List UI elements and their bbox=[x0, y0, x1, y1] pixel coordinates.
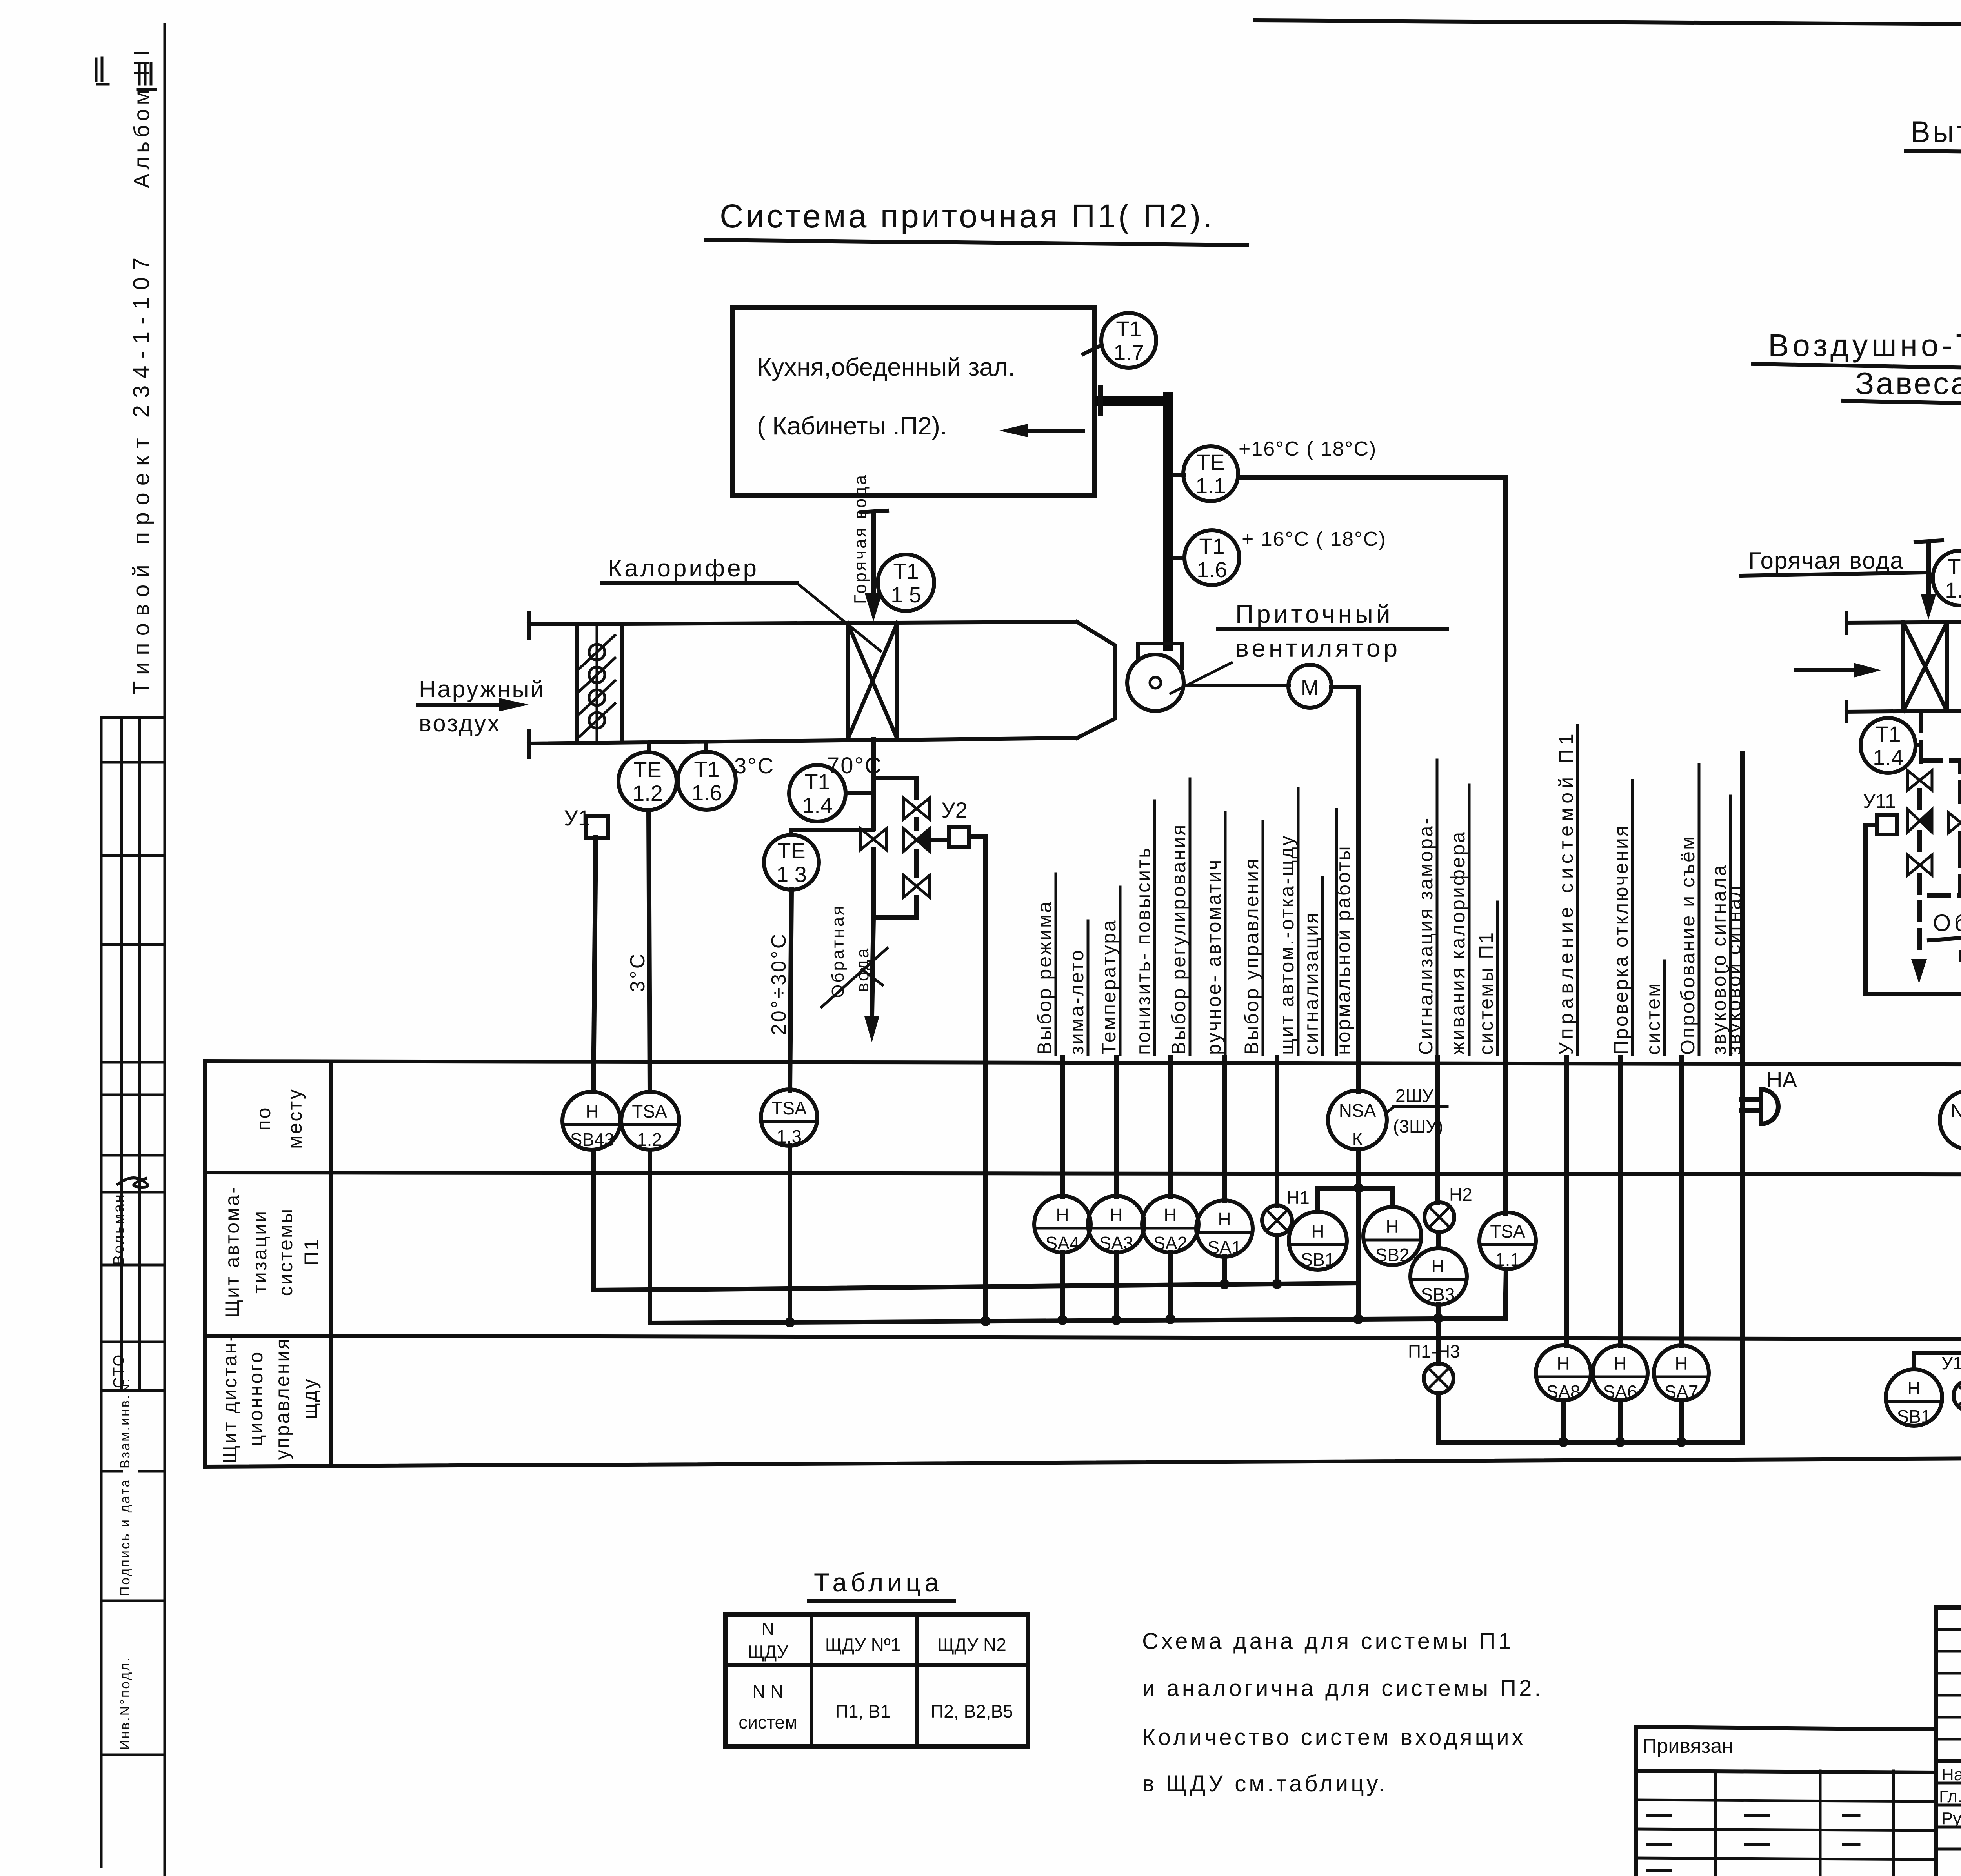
svg-text:Н: Н bbox=[1675, 1353, 1688, 1374]
svg-text:1.4: 1.4 bbox=[802, 793, 833, 818]
svg-text:Рук. гр.: Рук. гр. bbox=[1941, 1809, 1961, 1828]
svg-text:щду: щду bbox=[299, 1377, 321, 1419]
wire сигнализация замораживания down bbox=[1435, 1058, 1440, 1202]
sensor TE 1.3 bbox=[764, 835, 819, 890]
small table frame bbox=[725, 1614, 1028, 1747]
sensor T1 1.7 bbox=[1101, 313, 1156, 368]
switch H/SA6 bbox=[1593, 1345, 1648, 1400]
stamp marks top-left bbox=[96, 58, 156, 89]
wire SA2 column bbox=[1168, 1058, 1173, 1197]
left margin strip cells bbox=[100, 718, 103, 1867]
wire TSA1.2 down to bus B bbox=[648, 1151, 652, 1322]
svg-text:Кухня,обеденный зал.: Кухня,обеденный зал. bbox=[757, 353, 1015, 381]
button H/SB43 bbox=[562, 1092, 620, 1150]
fan to motor link bbox=[1184, 684, 1289, 687]
svg-text:Н: Н bbox=[1557, 1353, 1570, 1374]
branch У1 row3 bbox=[1914, 1353, 1961, 1369]
svg-text:1.6: 1.6 bbox=[1197, 557, 1227, 582]
bracket over SB1 SB2 bbox=[1318, 1188, 1392, 1212]
svg-text:У1-: У1- bbox=[1941, 1353, 1961, 1373]
sensor T1 1.5 curtain bbox=[1933, 551, 1961, 605]
svg-text:понизить- повысить: понизить- повысить bbox=[1132, 846, 1154, 1055]
svg-text:Температура: Температура bbox=[1098, 919, 1120, 1055]
heater box with cross bbox=[846, 623, 850, 740]
svg-text:тизации: тизации bbox=[249, 1210, 271, 1294]
svg-text:Н: Н bbox=[1386, 1216, 1399, 1237]
svg-text:Т1: Т1 bbox=[1116, 316, 1141, 341]
bypass branch top bbox=[873, 778, 917, 798]
svg-text:в ЩДУ см.таблицу.: в ЩДУ см.таблицу. bbox=[1142, 1771, 1388, 1796]
hot water pipe into curtain heater bbox=[1926, 544, 1931, 602]
svg-text:У2: У2 bbox=[941, 798, 968, 822]
arrow into room bbox=[1014, 429, 1083, 433]
svg-text:и аналогична для системы П2.: и аналогична для системы П2. bbox=[1142, 1676, 1544, 1701]
panel table bottom line bbox=[205, 1456, 1961, 1467]
svg-text:SB1: SB1 bbox=[1897, 1406, 1931, 1427]
svg-text:2ШУ: 2ШУ bbox=[1395, 1085, 1434, 1106]
svg-text:М: М bbox=[1301, 675, 1319, 700]
wire SB43 down to bus A bbox=[591, 1151, 596, 1290]
selector NSA K curtain bbox=[1940, 1091, 1961, 1149]
У11 control wire to junction bbox=[1866, 689, 1961, 994]
svg-text:Н: Н bbox=[1311, 1221, 1324, 1242]
switch H/SA2 bbox=[1142, 1196, 1199, 1252]
louver section divider bbox=[620, 624, 624, 742]
SEC:FANS bbox=[1906, 115, 1961, 1096]
svg-text:Опробование и съём: Опробование и съём bbox=[1677, 835, 1699, 1055]
svg-text:Н: Н bbox=[1431, 1256, 1444, 1276]
frame border vertical bbox=[164, 24, 166, 1876]
svg-text:Щит дистан-: Щит дистан- bbox=[219, 1333, 241, 1463]
svg-text:НА: НА bbox=[1766, 1067, 1797, 1092]
curtain valve bottom bbox=[1908, 855, 1932, 875]
svg-text:Обратная: Обратная bbox=[828, 904, 848, 998]
wire M down to table bbox=[1332, 687, 1359, 1091]
title block outline bbox=[1936, 1605, 1961, 1610]
svg-text:Схема дана для системы П1: Схема дана для системы П1 bbox=[1142, 1629, 1514, 1654]
svg-text:1 3: 1 3 bbox=[776, 862, 807, 887]
duct top line bbox=[529, 622, 1077, 624]
svg-text:Обратная: Обратная bbox=[1933, 910, 1961, 936]
SEC:ROW2 bbox=[593, 1146, 1536, 1363]
junction У2 wire on bus B bbox=[980, 1316, 991, 1326]
top right border line bbox=[1255, 20, 1961, 28]
button H/SB3 bbox=[1410, 1248, 1467, 1305]
svg-text:1.5: 1.5 bbox=[1945, 578, 1961, 602]
wire НА down to bus C bbox=[1740, 1086, 1745, 1443]
svg-text:Н1: Н1 bbox=[1286, 1187, 1310, 1208]
sensor T1 1.4 curtain bbox=[1861, 718, 1916, 773]
duct right taper to fan bbox=[1077, 622, 1115, 738]
svg-text:SB2: SB2 bbox=[1375, 1245, 1410, 1265]
svg-text:Выбор управления: Выбор управления bbox=[1241, 857, 1262, 1055]
switch H/SA4 bbox=[1034, 1196, 1091, 1252]
three-way valve with actuator У2 bbox=[904, 829, 930, 851]
svg-text:Горячая вода: Горячая вода bbox=[1748, 547, 1904, 574]
Привязан block bbox=[1636, 1727, 1936, 1729]
svg-text:месту: месту bbox=[284, 1088, 306, 1149]
button H/SB2 bbox=[1363, 1207, 1421, 1265]
svg-text:П1-Н3: П1-Н3 bbox=[1408, 1341, 1460, 1362]
svg-text:1.6: 1.6 bbox=[691, 780, 722, 805]
wire horn НА column bbox=[1740, 753, 1745, 1086]
panel table top line bbox=[205, 1061, 1961, 1065]
svg-text:Н: Н bbox=[1218, 1209, 1231, 1229]
svg-text:SB3: SB3 bbox=[1421, 1284, 1455, 1305]
svg-text:Наружный: Наружный bbox=[419, 676, 545, 702]
svg-text:Т1: Т1 bbox=[1199, 534, 1224, 558]
switch H/SA3 bbox=[1088, 1196, 1144, 1252]
svg-text:Вольман: Вольман bbox=[111, 1193, 127, 1265]
svg-text:ТЕ: ТЕ bbox=[633, 757, 662, 782]
svg-text:3°С: 3°С bbox=[626, 952, 649, 992]
svg-text:Привязан: Привязан bbox=[1642, 1735, 1733, 1758]
svg-text:TSA: TSA bbox=[632, 1101, 667, 1122]
wire П1-Н3 to bus C bbox=[1439, 1393, 1742, 1443]
svg-text:воздух: воздух bbox=[419, 710, 501, 736]
svg-text:живания калорифера: живания калорифера bbox=[1447, 831, 1469, 1055]
svg-text:1 5: 1 5 bbox=[891, 582, 921, 607]
lead to T1 1.7 bbox=[1083, 345, 1102, 354]
svg-text:Выбор регулирования: Выбор регулирования bbox=[1168, 823, 1190, 1055]
svg-text:N: N bbox=[761, 1619, 774, 1639]
louver damper blades bbox=[580, 635, 615, 736]
svg-text:ручное- автоматич: ручное- автоматич bbox=[1203, 858, 1225, 1055]
svg-text:(3ШУ): (3ШУ) bbox=[1393, 1116, 1443, 1136]
svg-text:N N: N N bbox=[752, 1681, 783, 1702]
valve on main line bbox=[860, 829, 886, 850]
svg-text:Таблица: Таблица bbox=[814, 1568, 943, 1597]
wire SA4 column bbox=[1060, 1058, 1065, 1197]
svg-text:ционного: ционного bbox=[245, 1351, 267, 1446]
curtain heater box bbox=[1846, 622, 1961, 623]
SEC:CURTAIN bbox=[1741, 328, 1961, 1091]
SEC:AHU bbox=[418, 473, 1359, 1322]
valve on bypass bottom bbox=[904, 875, 930, 897]
sensor T1 1.5 bbox=[878, 554, 934, 611]
svg-text:1.2: 1.2 bbox=[632, 781, 663, 805]
motor M of supply fan bbox=[1288, 665, 1332, 708]
wire У2 down to bus bbox=[969, 836, 986, 1322]
svg-text:Н: Н bbox=[1110, 1205, 1122, 1225]
duct end ticks bbox=[527, 613, 531, 638]
svg-text:( Кабинеты .П2).: ( Кабинеты .П2). bbox=[757, 412, 947, 440]
alarm TSA 1.2 bbox=[621, 1092, 679, 1150]
hot water pipe into heater bbox=[871, 514, 876, 612]
svg-text:П2, В2,В5: П2, В2,В5 bbox=[931, 1701, 1013, 1721]
SEC:ROW3 bbox=[1408, 1341, 1961, 1447]
curtain valve top bbox=[1908, 771, 1932, 790]
duct bottom line bbox=[529, 738, 1077, 743]
wire TE1.1 to TSA1.1 bbox=[1238, 478, 1505, 1213]
svg-text:ЩДУ: ЩДУ bbox=[748, 1641, 789, 1662]
svg-text:Калорифер: Калорифер bbox=[608, 555, 759, 582]
wire H1 lamp column bbox=[1275, 1058, 1279, 1205]
svg-text:вентилятор: вентилятор bbox=[1235, 634, 1401, 662]
wire SA7 column bbox=[1679, 1058, 1684, 1345]
sensor T1 1.4 bbox=[789, 765, 846, 822]
svg-text:Количество систем входящих: Количество систем входящих bbox=[1142, 1725, 1526, 1750]
panel table divider row2/row3 bbox=[205, 1336, 1961, 1340]
heater water drop pipe bbox=[871, 740, 876, 829]
svg-text:П1: П1 bbox=[300, 1238, 322, 1266]
svg-text:Горячая вода: Горячая вода bbox=[851, 473, 870, 604]
svg-text:Вытяжной вентилятор В1: Вытяжной вентилятор В1 bbox=[1910, 115, 1961, 149]
svg-text:Гл.инж.отд: Гл.инж.отд bbox=[1939, 1787, 1961, 1806]
svg-text:систем: систем bbox=[739, 1712, 797, 1732]
svg-text:1.2: 1.2 bbox=[637, 1129, 662, 1150]
svg-text:вода: вода bbox=[1957, 941, 1961, 967]
bus B bbox=[650, 1318, 1505, 1323]
svg-text:Н: Н bbox=[586, 1101, 598, 1122]
svg-text:Нач.отд: Нач.отд bbox=[1941, 1765, 1961, 1784]
wire TE1.3 down to TSA1.3 bbox=[790, 890, 791, 1090]
wire SA6 column bbox=[1618, 1058, 1623, 1345]
bypass rejoin bbox=[873, 897, 917, 917]
svg-text:У11: У11 bbox=[1863, 790, 1896, 812]
inlet arrow curtain bbox=[1796, 668, 1859, 672]
svg-text:20°÷30°С: 20°÷30°С bbox=[768, 932, 790, 1035]
svg-text:Н: Н bbox=[1907, 1378, 1920, 1398]
curtain three-way valve bbox=[1908, 809, 1932, 832]
supply fan bbox=[1138, 644, 1182, 668]
svg-text:ЩДУ N2: ЩДУ N2 bbox=[937, 1634, 1006, 1655]
wire TE1.2 down to TSA1.2 bbox=[649, 810, 650, 1092]
SEC:LABELS bbox=[1033, 725, 1745, 1345]
svg-text:системы П1: системы П1 bbox=[1475, 931, 1497, 1055]
svg-text:Выбор режима: Выбор режима bbox=[1033, 900, 1055, 1055]
sensor TE 1.2 bbox=[647, 743, 651, 752]
switch H/SA8 bbox=[1536, 1345, 1591, 1400]
svg-text:TSA: TSA bbox=[1490, 1221, 1525, 1242]
svg-text:зима-лето: зима-лето bbox=[1066, 949, 1088, 1055]
curtain water drop pipe dashed bbox=[1919, 711, 1923, 769]
svg-text:сигнализация: сигнализация bbox=[1300, 911, 1322, 1055]
svg-text:Типовой проект 234-1-107: Типовой проект 234-1-107 bbox=[129, 251, 154, 695]
sensor T1 1.6 duct bbox=[704, 742, 708, 752]
sensor TE 1.1 bbox=[1173, 473, 1184, 477]
button H/SB1 bbox=[1289, 1212, 1347, 1270]
svg-text:3°С: 3°С bbox=[734, 753, 775, 778]
title block small rows bbox=[1936, 1628, 1961, 1631]
svg-text:+16°С ( 18°С): +16°С ( 18°С) bbox=[1239, 438, 1377, 460]
svg-text:П1, В1: П1, В1 bbox=[835, 1701, 890, 1721]
svg-text:TSA: TSA bbox=[771, 1098, 807, 1118]
valve on bypass top bbox=[904, 798, 930, 819]
wire SA8 column bbox=[1564, 1058, 1569, 1345]
return arrow bbox=[1911, 959, 1927, 983]
svg-text:Сигнализация замора-: Сигнализация замора- bbox=[1415, 816, 1437, 1055]
panel table label column divider bbox=[329, 1062, 333, 1466]
alarm TSA 1.1 bbox=[1479, 1212, 1536, 1269]
wire SA3 column bbox=[1114, 1058, 1119, 1197]
svg-text:Система приточная П1( П2).: Система приточная П1( П2). bbox=[720, 198, 1215, 234]
selector NSA K 2ШУ bbox=[1328, 1091, 1387, 1149]
svg-text:Завеса У1: Завеса У1 bbox=[1855, 366, 1961, 401]
svg-text:Инв.N°подл.: Инв.N°подл. bbox=[118, 1656, 133, 1750]
svg-text:1.7: 1.7 bbox=[1113, 340, 1144, 365]
svg-text:1.1: 1.1 bbox=[1195, 473, 1226, 498]
svg-text:системы: системы bbox=[275, 1207, 297, 1296]
bus A slope segment bbox=[593, 1283, 1359, 1290]
svg-text:NSA: NSA bbox=[1951, 1100, 1961, 1121]
svg-text:ЩДУ Nº1: ЩДУ Nº1 bbox=[825, 1634, 900, 1655]
svg-text:+ 16°С ( 18°С): + 16°С ( 18°С) bbox=[1242, 528, 1386, 551]
svg-text:NSA: NSA bbox=[1339, 1100, 1376, 1121]
wire TSA1.3 to bus B junction bbox=[788, 1146, 792, 1323]
svg-text:Т1: Т1 bbox=[1947, 554, 1961, 579]
panel table divider row1/row2 bbox=[205, 1172, 1961, 1175]
svg-text:1.4: 1.4 bbox=[1873, 745, 1903, 770]
SEC:TABLE bbox=[205, 1061, 1961, 1467]
svg-text:Н: Н bbox=[1614, 1353, 1626, 1374]
svg-text:Н: Н bbox=[1164, 1205, 1177, 1225]
svg-text:щит автом.-отка-щду: щит автом.-отка-щду bbox=[1276, 834, 1298, 1055]
svg-text:SB1: SB1 bbox=[1301, 1249, 1335, 1270]
thick supply pipe from room to fan bbox=[1100, 396, 1168, 406]
svg-text:Подпись и дата: Подпись и дата bbox=[118, 1478, 133, 1596]
switch H/SA1 bbox=[1196, 1200, 1253, 1257]
AHU body left edge bbox=[575, 624, 579, 743]
switch H/SA7 bbox=[1654, 1345, 1709, 1400]
wire SA1 column bbox=[1222, 1058, 1227, 1201]
svg-text:Воздушно-Тепловая: Воздушно-Тепловая bbox=[1768, 328, 1961, 363]
svg-text:К: К bbox=[1352, 1129, 1363, 1149]
panel table left border bbox=[203, 1061, 207, 1467]
SEC:BOTTOM bbox=[725, 1564, 1961, 1876]
sensor T1 1.6 upper bbox=[1173, 556, 1184, 560]
svg-text:Т1: Т1 bbox=[1875, 722, 1901, 746]
svg-text:Проверка отключения: Проверка отключения bbox=[1610, 824, 1632, 1055]
svg-text:Альбом III: Альбом III bbox=[129, 46, 154, 188]
wire NSA2ШУ to bus A bbox=[1358, 1149, 1359, 1320]
svg-text:ТЕ: ТЕ bbox=[1197, 450, 1225, 474]
svg-text:SB43: SB43 bbox=[570, 1129, 615, 1150]
svg-text:Т1: Т1 bbox=[804, 769, 830, 794]
svg-text:по: по bbox=[253, 1106, 275, 1131]
svg-text:Н: Н bbox=[1056, 1205, 1069, 1225]
svg-text:Щит автома-: Щит автома- bbox=[221, 1185, 243, 1318]
wire SB3 down through bus B to П1-Н3 bbox=[1438, 1305, 1439, 1363]
curtain valve bypass bbox=[1948, 813, 1961, 833]
svg-text:систем: систем bbox=[1642, 982, 1664, 1055]
alarm TSA 1.3 bbox=[761, 1089, 817, 1146]
svg-text:ТЕ: ТЕ bbox=[777, 838, 806, 863]
svg-text:Управление системой П1: Управление системой П1 bbox=[1555, 729, 1577, 1055]
svg-text:Т1: Т1 bbox=[893, 559, 919, 584]
wire У1 down to H/SB43 bbox=[593, 838, 596, 1092]
room box Кухня, обеденный зал (Кабинеты П2) bbox=[733, 307, 1094, 496]
svg-text:Н2: Н2 bbox=[1449, 1184, 1472, 1205]
svg-text:управления: управления bbox=[271, 1337, 293, 1460]
return water pipe with arrow bbox=[872, 917, 873, 1016]
svg-text:Взам.инв.N:: Взам.инв.N: bbox=[118, 1377, 133, 1469]
curtain bypass dashed bbox=[1921, 761, 1961, 810]
svg-text:Приточный: Приточный bbox=[1235, 600, 1393, 628]
svg-text:Т1: Т1 bbox=[694, 757, 719, 782]
SEC:TOPLEFT bbox=[706, 198, 1505, 1213]
